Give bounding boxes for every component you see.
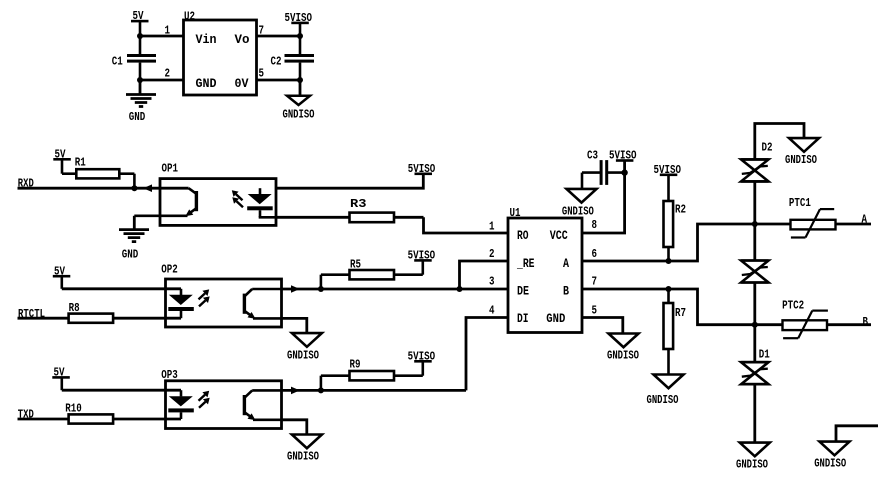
wire R3 to U1 pin 1 [424,217,509,233]
diode LED inside OP1 [247,188,276,217]
svg-text:A: A [862,213,868,227]
svg-text:GNDISO: GNDISO [283,108,315,122]
light arrows OP3 (pointing up-right) [199,391,210,408]
fuse PTC1 [789,196,836,238]
node Vin junction dot [137,33,143,39]
svg-text:0V: 0V [235,76,249,91]
light arrows OP2 (pointing up-right) [199,289,210,306]
svg-text:VCC: VCC [550,228,568,243]
power flag 5V (OP2 anode) [53,264,71,289]
transistor OP1 phototransistor (faces left) [134,188,196,216]
optocoupler OP1 [160,162,276,226]
node _RE/DE junction dot [457,286,463,292]
svg-text:C1: C1 [112,54,123,68]
svg-text:GNDISO: GNDISO [562,205,594,219]
svg-text:8: 8 [592,218,598,232]
svg-text:GND: GND [196,76,217,91]
svg-text:GNDISO: GNDISO [287,348,319,362]
resistor R3 [276,197,424,222]
diode LED inside OP3 [168,390,194,419]
power flag 5V (R1 pull-up) [53,147,71,173]
arrow on RXD line (pointing left) [143,184,152,192]
wire RTCTL line [18,317,69,320]
power flag 5VISO (C3/VCC) [609,149,637,163]
svg-text:_RE: _RE [516,256,534,271]
wire U2 pin 7 to 5VISO node [257,35,302,38]
resistor R9 [321,358,423,391]
svg-text:R9: R9 [350,358,361,372]
wire 5V flag to Vin node [139,22,142,36]
wire RXD line [18,187,189,190]
optocoupler OP3 [161,368,281,429]
wire Vin node to U2 pin 1 [139,35,184,38]
node 0V junction dot [297,77,303,83]
transistor OP2 phototransistor (faces right) [244,289,281,319]
wire TXD line [18,418,69,421]
wire U1 pin 2 tie to DE line [460,261,509,289]
power flag 5VISO (OP1) [408,162,436,176]
ground GNDISO (below OP2) [287,333,322,362]
svg-text:D1: D1 [759,347,770,361]
wire TVS chain top to GNDISO [755,124,804,160]
svg-text:C3: C3 [587,149,598,163]
svg-text:1: 1 [165,24,171,38]
TVS diode (between A and B) [741,261,768,283]
svg-text:A: A [563,256,569,271]
svg-text:PTC1: PTC1 [789,196,811,210]
wire U1 pin 5 to GNDISO [582,318,623,333]
capacitor C1 [112,36,156,80]
resistor R1 [62,156,134,189]
ground GNDISO (C3) [562,189,597,219]
wire OP3 emitter to GNDISO [282,420,307,434]
svg-text:3: 3 [489,274,495,288]
svg-text:GNDISO: GNDISO [607,349,639,363]
svg-text:1: 1 [489,219,495,233]
node R2/A junction dot [666,258,672,264]
svg-text:RO: RO [517,228,529,243]
diode LED inside OP2 [168,289,194,318]
ground GNDISO (bottom right) [814,442,849,471]
wire U2 pin 5 to GNDISO node [257,79,302,82]
ground GNDISO (R7) [647,375,684,408]
fuse PTC2 [782,298,828,338]
optocoupler OP2 [161,263,281,328]
arrow on OP3 output (pointing right) [291,387,300,395]
node R5 junction dot [318,286,324,292]
node RXD junction dot [131,185,137,191]
svg-text:5: 5 [592,303,598,317]
wire A line from U1 pin 6 [582,224,791,261]
wire B line from U1 pin 7 [582,289,783,325]
wire OP2 collector to U1 DE line [282,288,509,291]
node VCC/C3 junction dot [621,169,627,175]
wire PTC1 to terminal A [836,223,872,226]
ground GND (input side) [126,80,156,124]
wire OP3 collector to U1 DI line [282,389,467,392]
wire U1 pin 8 VCC to 5VISO [582,161,625,233]
svg-text:GNDISO: GNDISO [814,457,846,471]
node R7/B junction dot [666,286,672,292]
wire OP2 emitter to GNDISO [282,318,307,332]
ground GNDISO (below C2) [283,80,315,122]
svg-text:PTC2: PTC2 [782,298,804,312]
wire 5V to OP2 LED anode [62,287,181,290]
wire D1 to GNDISO [753,384,756,442]
ground GNDISO (below D1) [736,443,770,472]
wire bottom-right to GNDISO [836,426,878,441]
wire D2 to A line [753,181,756,261]
svg-text:B: B [863,315,869,329]
svg-text:C2: C2 [271,54,282,68]
TVS diode D2 [741,140,772,181]
resistor R7 [664,289,687,374]
ground GNDISO (top right) [785,138,819,167]
light arrows OP1 (pointing up-left) [232,190,243,207]
svg-text:7: 7 [592,274,598,288]
svg-text:GND: GND [122,248,139,262]
ground GNDISO (U1 pin 5) [607,334,639,363]
resistor R5 [321,258,423,289]
arrow on OP2 output (pointing right) [291,285,300,293]
capacitor C3 [582,149,625,189]
svg-text:GND: GND [129,110,146,124]
svg-text:GNDISO: GNDISO [785,153,817,167]
svg-text:OP1: OP1 [162,162,179,176]
svg-text:Vin: Vin [196,32,217,47]
transistor OP3 phototransistor (faces right) [244,390,281,420]
svg-text:R2: R2 [675,202,686,216]
svg-text:GNDISO: GNDISO [647,393,679,407]
svg-text:DI: DI [517,311,529,326]
resistor R8 [69,301,181,323]
wire middle TVS to B line and D1 [753,283,756,363]
node Vo junction dot [297,33,303,39]
svg-text:OP2: OP2 [161,263,178,277]
svg-text:2: 2 [165,67,171,81]
svg-text:D2: D2 [762,140,773,154]
svg-text:6: 6 [592,247,598,261]
capacitor C2 [271,36,315,80]
DC-DC converter U2 [184,9,257,95]
resistor R10 [65,402,181,424]
node C1 bottom junction dot [137,77,143,83]
svg-text:GNDISO: GNDISO [736,458,768,472]
wire OP1 emitter to ground [133,216,136,229]
svg-text:Vo: Vo [235,32,250,47]
svg-text:GND: GND [546,311,565,326]
TVS diode D1 [741,347,770,384]
wire U2 pin 2 to GND node [139,79,184,82]
svg-text:5: 5 [259,67,265,81]
svg-text:R1: R1 [75,156,86,170]
transceiver U1 [508,206,582,333]
svg-text:DE: DE [517,284,529,299]
node A/TVS junction dot [752,221,758,227]
power flag 5V (OP3 anode) [52,366,70,391]
power flag 5VISO (R5) [408,248,436,262]
wire 5V to OP3 LED anode [62,389,181,392]
ground GND (below OP1) [119,230,149,262]
resistor R2 [664,176,687,262]
wire PTC2 to terminal B [827,323,871,326]
wire U1 pin 4 riser [466,318,508,391]
svg-text:4: 4 [489,303,495,317]
power flag 5V (input supply, top-left) [131,9,149,23]
svg-text:2: 2 [489,247,495,261]
power flag 5VISO (R9) [408,349,436,363]
power flag 5VISO (top) [285,11,313,36]
svg-text:B: B [563,284,569,299]
power flag 5VISO (R2) [654,163,682,177]
ground GNDISO (below OP3) [287,435,322,464]
node R9 junction dot [318,387,324,393]
svg-text:R7: R7 [675,306,686,320]
svg-text:R3: R3 [350,197,367,211]
node B/TVS junction dot [752,322,758,328]
svg-text:GNDISO: GNDISO [287,450,319,464]
wire OP1 anode to 5VISO [276,175,423,189]
